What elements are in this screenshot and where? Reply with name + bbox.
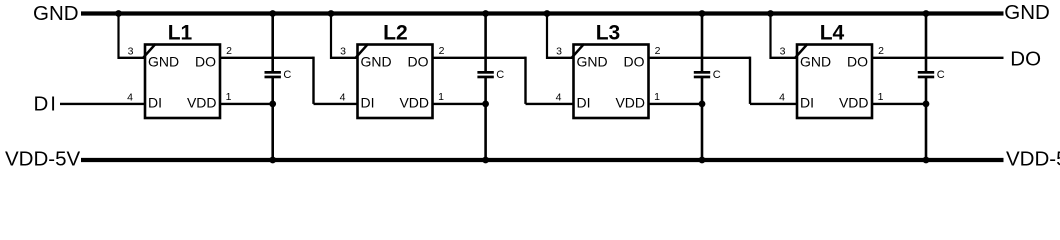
IC L3 (LED driver module) (571, 22, 648, 118)
svg-text:L2: L2 (383, 22, 408, 45)
svg-text:VDD: VDD (615, 94, 645, 110)
junction L1 VDD / C1 lead (269, 101, 276, 108)
svg-text:L4: L4 (820, 22, 845, 45)
junction L3 GND riser on GND rail (544, 10, 551, 17)
svg-text:1: 1 (878, 91, 884, 103)
svg-text:1: 1 (654, 91, 660, 103)
wire C1 bottom lead to VDD rail (271, 78, 274, 161)
wire L1 pin 3 to GND rail (119, 14, 146, 60)
svg-text:VDD: VDD (839, 94, 869, 110)
svg-text:4: 4 (556, 91, 562, 103)
capacitor C1 (decoupling) (265, 71, 281, 78)
svg-text:GND: GND (361, 54, 392, 70)
junction L4 VDD / C4 lead (923, 101, 930, 108)
svg-text:1: 1 (438, 91, 444, 103)
junction L3 VDD / C3 lead (699, 101, 706, 108)
capacitor C3 (decoupling) (694, 71, 710, 78)
wire L3 DO to L4 DI (routed) (649, 57, 798, 104)
svg-text:DO: DO (195, 54, 216, 70)
svg-text:C: C (937, 69, 945, 81)
wire L4 DO to DO output (872, 57, 1004, 59)
svg-text:DI: DI (577, 94, 591, 110)
wire C2 bottom lead to VDD rail (484, 78, 487, 161)
junction L2 GND riser on GND rail (328, 10, 335, 17)
svg-text:2: 2 (439, 45, 445, 57)
capacitor C2 (decoupling) (477, 71, 493, 78)
svg-text:DI: DI (361, 94, 375, 110)
capacitor C4 (decoupling) (918, 71, 934, 78)
junction L1 GND riser on GND rail (115, 10, 122, 17)
svg-text:3: 3 (128, 46, 134, 58)
svg-text:GND: GND (800, 54, 831, 70)
junction C1 on VDD rail (269, 157, 276, 164)
junction C4 on GND rail (923, 10, 930, 17)
wire L4 VDD to C4 lead (872, 103, 926, 105)
junction C3 on VDD rail (699, 157, 706, 164)
wire L1 DO to L2 DI (routed) (220, 57, 358, 104)
junction C3 on GND rail (699, 10, 706, 17)
wire C4 top lead to GND rail (925, 14, 928, 72)
svg-text:L1: L1 (168, 22, 193, 45)
svg-text:3: 3 (340, 46, 346, 58)
svg-text:DI: DI (34, 92, 59, 115)
svg-text:GND: GND (33, 2, 79, 25)
svg-text:VDD-5V: VDD-5V (5, 147, 81, 170)
svg-text:DO: DO (1010, 47, 1041, 70)
wire L1 VDD to C1 lead (220, 103, 273, 105)
svg-text:GND: GND (577, 54, 608, 70)
wire L4 pin 3 to GND rail (771, 14, 798, 60)
junction C2 on VDD rail (482, 157, 489, 164)
junction C2 on GND rail (482, 10, 489, 17)
wire C2 top lead to GND rail (484, 14, 487, 72)
junction C1 on GND rail (269, 10, 276, 17)
svg-text:4: 4 (127, 91, 133, 103)
svg-text:DO: DO (847, 54, 868, 70)
wire C3 top lead to GND rail (701, 14, 704, 72)
wire L2 VDD to C2 lead (433, 103, 486, 105)
wire VDD-5V bus (bottom rail) (81, 158, 1004, 162)
svg-text:DO: DO (408, 54, 429, 70)
svg-text:3: 3 (556, 46, 562, 58)
svg-text:4: 4 (340, 91, 346, 103)
junction C4 on VDD rail (923, 157, 930, 164)
svg-text:4: 4 (779, 91, 785, 103)
svg-text:GND: GND (148, 54, 179, 70)
svg-text:2: 2 (226, 45, 232, 57)
IC L4 (LED driver module) (795, 22, 872, 118)
svg-text:C: C (496, 69, 504, 81)
junction L2 VDD / C2 lead (482, 101, 489, 108)
wire L2 DO to L3 DI (routed) (433, 57, 574, 104)
IC L2 (LED driver module) (355, 22, 432, 118)
wire L3 pin 3 to GND rail (547, 14, 574, 60)
wire C3 bottom lead to VDD rail (701, 78, 704, 161)
wire L2 pin 3 to GND rail (331, 14, 358, 60)
svg-text:2: 2 (878, 45, 884, 57)
svg-text:GND: GND (1004, 1, 1050, 24)
svg-text:VDD: VDD (187, 94, 217, 110)
wire C1 top lead to GND rail (271, 14, 274, 72)
svg-text:L3: L3 (596, 22, 621, 45)
junction L4 GND riser on GND rail (767, 10, 774, 17)
svg-text:2: 2 (655, 45, 661, 57)
svg-text:VDD: VDD (399, 94, 429, 110)
svg-text:DO: DO (624, 54, 645, 70)
svg-text:DI: DI (148, 94, 162, 110)
svg-text:C: C (713, 69, 721, 81)
wire C4 bottom lead to VDD rail (925, 78, 928, 161)
svg-text:DI: DI (800, 94, 814, 110)
IC L1 (LED driver module) (143, 22, 220, 118)
svg-text:3: 3 (780, 46, 786, 58)
svg-text:C: C (283, 69, 291, 81)
wire L3 VDD to C3 lead (649, 103, 703, 105)
svg-text:VDD-5V: VDD-5V (1006, 147, 1060, 170)
wire GND bus (top rail) (81, 11, 1004, 15)
wire DI input to L1 pin 4 (60, 103, 145, 105)
svg-text:1: 1 (226, 91, 232, 103)
